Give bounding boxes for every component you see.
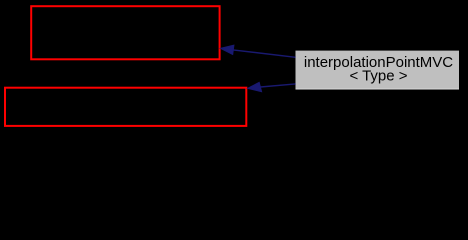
svg-text:< Type >: < Type > xyxy=(349,67,407,84)
